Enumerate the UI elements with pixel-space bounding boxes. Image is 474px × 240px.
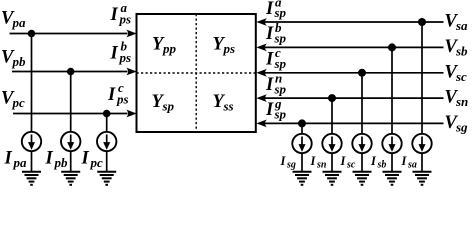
label Ysp xyxy=(152,92,175,114)
wire Isc to ground xyxy=(361,153,363,171)
svg-text:sa: sa xyxy=(455,18,468,33)
label Isp^c xyxy=(265,45,287,71)
current source Ipc xyxy=(97,132,116,151)
wire Isg to ground xyxy=(301,153,303,171)
node Vsc label xyxy=(445,62,468,84)
wire pc to box xyxy=(13,110,137,118)
ground under Isb xyxy=(383,172,402,185)
ground under Isg xyxy=(293,172,312,185)
junction dot pb xyxy=(67,68,75,76)
junction dot pa xyxy=(28,30,36,38)
wire sn from box xyxy=(256,94,443,102)
svg-text:sp: sp xyxy=(274,107,287,122)
wire sb vertical drop xyxy=(391,47,393,133)
current source Isg xyxy=(292,134,311,153)
wire sb from box xyxy=(256,44,443,52)
svg-text:ps: ps xyxy=(119,50,132,65)
current source Isn xyxy=(322,134,341,153)
svg-text:I: I xyxy=(107,85,116,105)
wire sn vertical drop xyxy=(331,98,333,134)
svg-text:pb: pb xyxy=(12,54,27,69)
svg-text:I: I xyxy=(110,44,119,64)
svg-text:sa: sa xyxy=(407,160,417,171)
svg-text:sn: sn xyxy=(316,160,327,171)
label Yss xyxy=(213,92,234,114)
label Ips^a xyxy=(110,0,132,26)
svg-text:I: I xyxy=(340,154,347,168)
node Vsb label xyxy=(445,37,469,59)
node Vpa label xyxy=(1,9,26,31)
svg-text:sb: sb xyxy=(377,160,387,171)
svg-text:I: I xyxy=(310,154,317,168)
label Isp^g xyxy=(265,96,287,122)
ground under Ipb xyxy=(61,172,80,185)
junction dot pc xyxy=(103,110,111,118)
svg-text:sb: sb xyxy=(455,44,468,59)
svg-text:I: I xyxy=(4,149,13,169)
label Ips^c xyxy=(107,80,129,107)
label Isb xyxy=(370,154,386,171)
current source Ipa xyxy=(22,132,41,151)
current source Isb xyxy=(382,134,401,153)
label Ypp xyxy=(152,35,177,57)
svg-text:sp: sp xyxy=(274,81,287,96)
label Yps xyxy=(213,35,236,57)
svg-text:sp: sp xyxy=(274,56,287,71)
dashed horizontal divider xyxy=(137,72,256,74)
junction dot sa xyxy=(418,18,426,26)
junction dot sc xyxy=(358,69,366,77)
junction dot sb xyxy=(388,43,396,51)
current source Isa xyxy=(412,134,431,153)
junction dot sg xyxy=(298,119,306,127)
node Vsa label xyxy=(445,12,469,33)
wire pa to box xyxy=(10,30,137,38)
svg-text:sp: sp xyxy=(274,31,287,46)
label Isp^a xyxy=(265,0,287,20)
svg-text:I: I xyxy=(370,154,377,168)
svg-text:pa: pa xyxy=(12,15,27,30)
ground under Isn xyxy=(323,172,342,185)
svg-text:ps: ps xyxy=(116,91,129,106)
svg-text:pp: pp xyxy=(162,41,177,56)
label Ipc xyxy=(81,149,104,171)
node Vsg label xyxy=(445,113,469,135)
svg-text:sp: sp xyxy=(274,5,287,20)
wire sa vertical drop xyxy=(421,22,423,134)
label Isn xyxy=(310,154,327,171)
admittance box xyxy=(137,14,256,132)
svg-text:sp: sp xyxy=(162,99,175,114)
wire pa vertical drop xyxy=(31,34,33,132)
label Ipa xyxy=(4,149,28,171)
svg-text:I: I xyxy=(81,149,90,169)
label Isp^b xyxy=(265,20,287,46)
svg-text:I: I xyxy=(401,154,408,168)
svg-text:I: I xyxy=(265,100,274,120)
wire sc from box xyxy=(256,69,443,77)
svg-text:ps: ps xyxy=(223,41,236,56)
wire sg from box xyxy=(256,120,443,128)
svg-text:pc: pc xyxy=(90,155,104,170)
svg-text:sn: sn xyxy=(455,94,468,109)
svg-text:pa: pa xyxy=(13,155,28,170)
wire pb to box xyxy=(12,68,137,76)
label Isp^n xyxy=(265,71,287,97)
node Vpb label xyxy=(1,48,26,70)
current source Ipb xyxy=(61,132,80,151)
svg-text:sg: sg xyxy=(286,160,296,171)
svg-text:pc: pc xyxy=(12,95,26,110)
label Ips^b xyxy=(110,38,132,65)
svg-text:I: I xyxy=(280,154,287,168)
ground under Isc xyxy=(353,172,372,185)
label Isc xyxy=(340,154,356,171)
current source Isc xyxy=(352,134,371,153)
svg-text:I: I xyxy=(45,149,54,169)
wire Isa to ground xyxy=(421,153,423,171)
svg-text:I: I xyxy=(265,50,274,70)
wire sg vertical drop xyxy=(301,123,303,133)
svg-text:sc: sc xyxy=(346,160,356,171)
ground under Ipa xyxy=(22,172,41,185)
svg-text:ps: ps xyxy=(119,11,132,26)
wire Isn to ground xyxy=(331,153,333,171)
svg-text:I: I xyxy=(265,0,274,19)
wire sa from box xyxy=(256,18,443,26)
wire sc vertical drop xyxy=(361,73,363,134)
wire pb vertical drop xyxy=(70,72,72,132)
wire Ipa to ground xyxy=(31,151,33,171)
svg-text:pb: pb xyxy=(54,155,69,170)
wire pc vertical drop xyxy=(106,114,108,132)
node Vsn label xyxy=(445,88,469,110)
ground under Isa xyxy=(413,172,432,185)
wire Ipb to ground xyxy=(70,151,72,171)
svg-text:I: I xyxy=(265,24,274,44)
label Isg xyxy=(280,154,296,171)
ground under Ipc xyxy=(97,172,116,185)
wire Isb to ground xyxy=(391,153,393,171)
svg-text:sg: sg xyxy=(455,120,468,135)
junction dot sn xyxy=(328,94,336,102)
label Ipb xyxy=(45,149,69,171)
node Vpc label xyxy=(1,89,25,111)
label Isa xyxy=(401,154,417,171)
wire Ipc to ground xyxy=(106,151,108,171)
svg-text:I: I xyxy=(110,5,119,25)
dashed vertical divider xyxy=(195,14,197,132)
svg-text:I: I xyxy=(265,75,274,95)
svg-text:ss: ss xyxy=(223,99,234,114)
svg-text:sc: sc xyxy=(455,69,467,84)
